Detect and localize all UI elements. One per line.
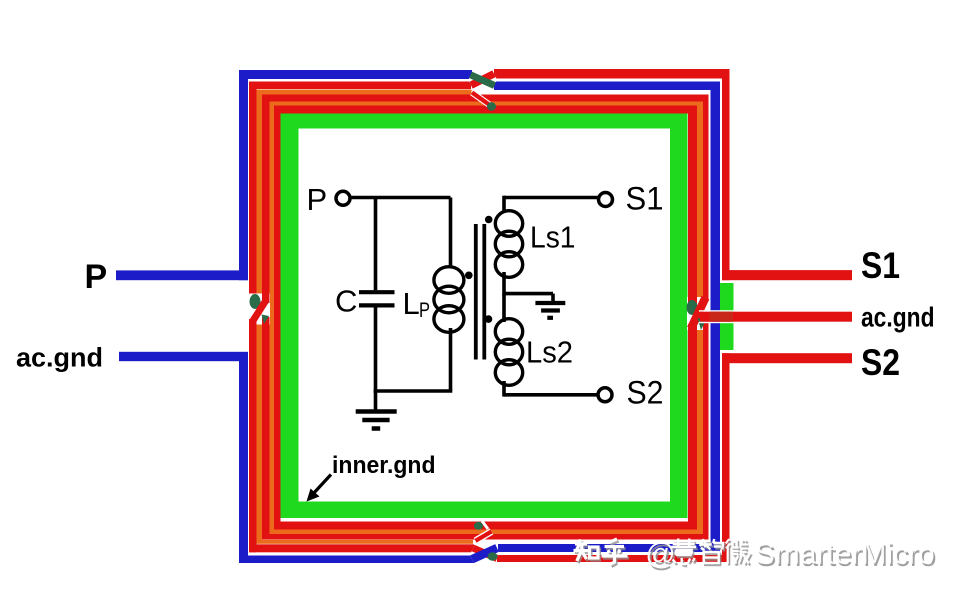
secondary winding turn E/R3 (innermost red ring): [274, 106, 697, 530]
center tap wire: [504, 292, 553, 296]
inductor Lp: [403, 267, 464, 333]
CJK glyph 慧 (shadow+white): [671, 539, 698, 567]
secondary winding turn C/R2 (middle red ring): [262, 95, 709, 540]
top crossover: [471, 74, 497, 111]
terminal S2: [598, 375, 664, 411]
inner ground tab (right side, green): [718, 283, 734, 350]
svg-text:Ls1: Ls1: [530, 220, 576, 255]
svg-text:Ls2: Ls2: [526, 334, 573, 369]
terminal S1: [599, 180, 664, 216]
wire Ls2 bottom: [502, 381, 506, 397]
CJK glyph 知 (shadow+white): [574, 539, 600, 563]
wire bottom (C to Lp): [374, 389, 453, 393]
svg-text:S2: S2: [627, 375, 664, 411]
watermark: [574, 538, 937, 573]
svg-text:@: @: [645, 538, 675, 571]
svg-text:inner.gnd: inner.gnd: [332, 452, 436, 479]
wire capacitor to bottom: [374, 308, 378, 393]
wire down to Lp coil: [449, 198, 453, 269]
svg-text:C: C: [335, 284, 357, 319]
schematic: terminal P: [307, 182, 351, 217]
svg-text:P: P: [419, 299, 430, 322]
wire Ls1 to S1: [504, 196, 598, 200]
CJK glyph 微 (shadow+white): [726, 539, 752, 566]
wire Ls1 bottom to center tap: [502, 272, 506, 295]
secondary winding turn B/Bo (outer orange ring): [252, 90, 473, 544]
secondary lead S2 (red): [722, 353, 852, 363]
wire Lp bottom: [449, 328, 453, 391]
polarity dot Ls1: [485, 216, 493, 224]
svg-text:SmarterMicro: SmarterMicro: [755, 538, 935, 571]
svg-text:P: P: [85, 258, 108, 296]
wire Ls2 top stub: [502, 294, 506, 322]
secondary winding turn D/O (inner orange ring): [270, 101, 704, 535]
svg-text:S1: S1: [861, 245, 900, 286]
polarity dot Lp: [465, 272, 473, 280]
left crossover: [249, 294, 271, 325]
inner ground ring (green): [281, 114, 688, 519]
wire down to capacitor: [374, 198, 378, 291]
inductor Ls1: [495, 211, 575, 278]
primary winding (blue): [116, 70, 720, 563]
svg-text:P: P: [307, 182, 328, 217]
CJK glyph 智 (shadow+white): [700, 539, 725, 565]
wire P to Lp top: [350, 196, 451, 200]
secondary lead ac.gnd (red, over blue and green tab): [699, 310, 735, 312]
svg-text:ac.gnd: ac.gnd: [861, 301, 935, 332]
bottom crossover: [472, 521, 498, 561]
CJK glyph 乎 (shadow+white): [602, 539, 630, 567]
svg-text:L: L: [403, 286, 420, 321]
svg-text:ac.gnd: ac.gnd: [16, 342, 103, 372]
polarity dot Ls2: [485, 315, 493, 323]
svg-text:S2: S2: [861, 342, 900, 383]
inductor Ls2: [495, 319, 573, 386]
transformer core: [476, 224, 485, 360]
secondary winding turn A/R1 (outer red ring): [249, 69, 730, 562]
wire Ls1 top stub: [502, 196, 506, 213]
svg-text:S1: S1: [626, 180, 664, 216]
secondary lead S1 (red): [722, 270, 852, 280]
capacitor C: [335, 284, 395, 319]
label inner.gnd with arrow: [307, 452, 436, 502]
wire Ls2 to S2: [504, 393, 598, 397]
ground (center tap): [535, 294, 565, 318]
ground (below C): [356, 391, 397, 429]
right crossover: [687, 297, 710, 331]
